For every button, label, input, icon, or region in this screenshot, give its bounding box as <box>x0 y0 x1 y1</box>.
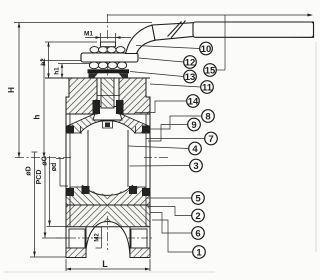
svg-text:2: 2 <box>195 211 200 222</box>
leader 7 <box>146 138 205 140</box>
cavity top cone right <box>121 113 150 126</box>
stem packing right <box>116 100 124 114</box>
upper seat hatch band right <box>108 114 151 133</box>
callout balloon 12 <box>184 56 197 69</box>
bolt hole centerline right <box>128 237 154 239</box>
lower seat band left <box>66 187 108 205</box>
svg-text:8: 8 <box>205 111 210 122</box>
svg-text:4: 4 <box>192 144 198 155</box>
right bolt hole <box>131 229 147 248</box>
svg-text:M2: M2 <box>95 233 101 242</box>
packing line <box>97 95 119 97</box>
bonnet left block <box>66 78 97 114</box>
callout balloon 6 <box>192 227 205 240</box>
wall dark bottom left <box>67 188 75 196</box>
handle bar <box>152 22 314 40</box>
svg-text:H: H <box>7 87 16 93</box>
plate <box>81 53 138 62</box>
seat ring outer edges <box>80 126 82 134</box>
dimension od <box>56 158 68 186</box>
arch between legs <box>86 222 131 258</box>
callout balloon 3 <box>190 159 203 172</box>
svg-text:15: 15 <box>205 65 216 76</box>
callout balloon 9 <box>188 118 201 131</box>
svg-text:12: 12 <box>185 57 196 68</box>
dimension H <box>14 23 152 158</box>
svg-text:h1: h1 <box>54 67 61 75</box>
scan border right <box>315 42 317 252</box>
leader 1 <box>152 220 193 252</box>
svg-text:1: 1 <box>196 247 202 258</box>
callout balloon 4 <box>189 142 202 155</box>
leader 10 <box>136 46 200 49</box>
body bottom right <box>108 205 151 227</box>
svg-text:14: 14 <box>188 96 199 107</box>
mounting surface <box>45 77 150 79</box>
right foot <box>130 248 150 258</box>
callout balloon 5 <box>192 192 205 205</box>
gland lug left <box>89 73 99 78</box>
left foot <box>66 248 86 258</box>
svg-text:7: 7 <box>208 134 213 145</box>
seat dark top right <box>142 126 150 134</box>
leader 9 <box>148 125 188 142</box>
callout balloon 7 <box>205 132 218 145</box>
wall dark bottom right <box>142 188 150 196</box>
svg-text:ød: ød <box>51 163 58 172</box>
leader 12 <box>139 58 184 62</box>
stem packing left <box>93 100 101 114</box>
handle bend <box>126 25 156 54</box>
callout balloon 15 <box>204 64 217 77</box>
dimension oD <box>30 152 68 257</box>
svg-text:øC: øC <box>42 156 49 165</box>
leader 2 <box>148 207 192 216</box>
callout balloon 1 <box>193 246 206 259</box>
left bolt hole <box>69 229 85 248</box>
svg-text:6: 6 <box>195 228 200 239</box>
centerline vertical <box>107 14 109 250</box>
bonnet right block <box>119 78 150 114</box>
nut row 1 <box>90 47 125 53</box>
body bottom edge <box>66 226 150 228</box>
left flange leg <box>66 227 86 258</box>
bowl boundary line <box>66 204 150 206</box>
dimension h2 <box>45 42 97 78</box>
svg-text:3: 3 <box>193 161 198 172</box>
leader 5 <box>147 197 192 199</box>
seat dark bottom left <box>82 186 90 194</box>
svg-text:13: 13 <box>185 72 196 83</box>
callout balloon 14 <box>187 95 200 108</box>
nut row 2 <box>89 62 126 69</box>
dimension h <box>40 61 82 158</box>
dimension h1 <box>58 64 90 79</box>
leader 4 <box>129 146 189 149</box>
lower seat band right <box>108 187 151 205</box>
body walls <box>65 114 67 227</box>
body bottom left <box>66 205 108 227</box>
seat dark top left <box>67 126 75 134</box>
svg-text:5: 5 <box>195 193 201 204</box>
svg-text:10: 10 <box>201 44 212 55</box>
top leader to 15 <box>108 15 311 70</box>
callout balloon 10 <box>200 42 213 55</box>
seat dark bottom right <box>129 186 137 194</box>
leader 13 <box>130 72 184 77</box>
ball top mark <box>103 121 113 128</box>
bowl top edges <box>70 186 84 188</box>
scan border bottom <box>4 271 215 273</box>
centerline horizontal <box>15 157 170 159</box>
callout balloon 2 <box>192 209 205 222</box>
dimension PCD <box>42 156 102 238</box>
seat bore lines <box>87 130 89 187</box>
svg-text:11: 11 <box>202 82 213 93</box>
dimension M1 <box>85 33 131 44</box>
svg-text:9: 9 <box>191 120 196 131</box>
upper seat hatch band left <box>66 114 108 133</box>
centerline inside arch <box>107 216 109 250</box>
svg-text:h2: h2 <box>40 58 47 66</box>
leader 6 <box>150 213 192 234</box>
dimension oC <box>47 156 68 227</box>
callout balloon 11 <box>201 81 214 94</box>
cavity top cone left <box>66 113 94 126</box>
stem tip <box>101 42 116 47</box>
leader 11 <box>150 84 201 87</box>
stem slot trapezoid <box>93 107 122 121</box>
svg-text:øD: øD <box>26 166 33 175</box>
svg-text:PCD: PCD <box>36 170 43 185</box>
gland lug right <box>119 73 129 78</box>
right flange leg <box>130 227 150 258</box>
svg-text:h: h <box>33 114 42 119</box>
stem shaft <box>101 78 114 108</box>
callout balloon 8 <box>202 110 215 123</box>
dimension L <box>66 259 150 271</box>
handle break marks <box>168 22 182 37</box>
ball <box>71 121 144 194</box>
leader 14 <box>135 101 187 113</box>
gland dark band <box>88 69 130 73</box>
bolt hole centerline left <box>56 237 102 239</box>
leader 8 <box>143 116 202 129</box>
leader 3 <box>130 165 190 168</box>
dimension M2 bracket <box>96 227 102 248</box>
svg-text:L: L <box>102 259 108 269</box>
svg-text:M1: M1 <box>84 31 93 38</box>
upper band outline <box>70 113 146 115</box>
callout balloon 13 <box>184 70 197 83</box>
